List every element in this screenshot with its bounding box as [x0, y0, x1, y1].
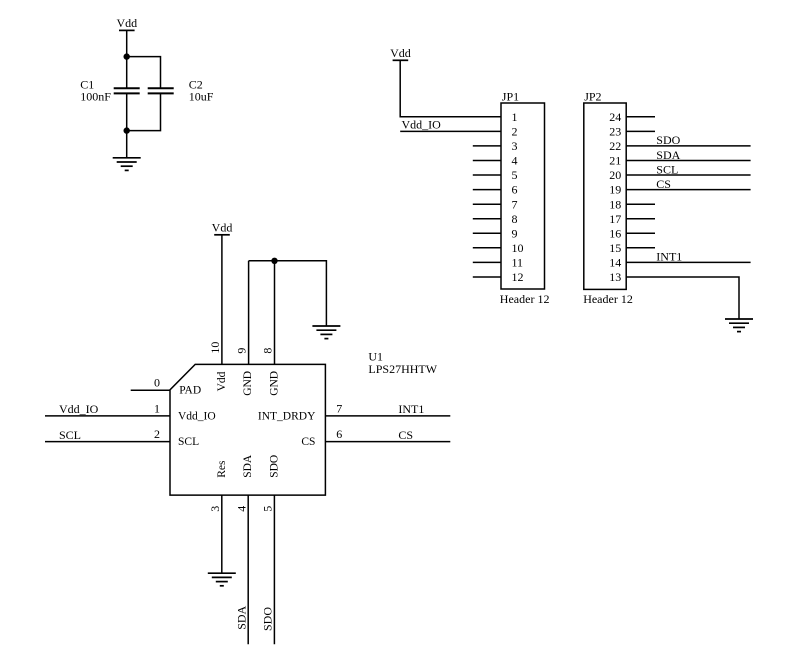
- svg-text:11: 11: [512, 256, 524, 270]
- svg-text:1: 1: [154, 401, 160, 415]
- svg-text:SDO: SDO: [656, 133, 680, 147]
- JP1 pin 10 stub: [473, 247, 501, 249]
- svg-text:12: 12: [512, 270, 524, 284]
- svg-text:Vdd_IO: Vdd_IO: [178, 410, 216, 422]
- svg-text:SDO: SDO: [268, 455, 280, 478]
- wire U1 pin 5 SDO: [273, 495, 275, 644]
- svg-text:23: 23: [609, 125, 621, 139]
- wire junction to ground: [126, 131, 128, 158]
- U1 pin 0 wire (PAD): [131, 389, 170, 391]
- svg-text:15: 15: [609, 241, 621, 255]
- svg-text:24: 24: [609, 110, 621, 124]
- JP1 pin 12 stub: [473, 276, 501, 278]
- wire C2 bottom to junction: [127, 94, 161, 131]
- JP2 pin 23 stub: [626, 130, 655, 132]
- wire JP2 pin 20 SCL: [626, 174, 750, 176]
- JP1 pin 5 stub: [473, 174, 501, 176]
- svg-text:7: 7: [336, 401, 342, 415]
- svg-text:3: 3: [208, 506, 222, 512]
- svg-text:GND: GND: [242, 371, 254, 396]
- svg-text:Vdd_IO: Vdd_IO: [59, 402, 99, 416]
- wire Vdd rail down to C1: [126, 30, 128, 87]
- svg-text:Vdd: Vdd: [212, 221, 233, 235]
- JP1 pin 7 stub: [473, 203, 501, 205]
- wire JP2 pin 22 SDO: [626, 145, 750, 147]
- ground (JP2 pin 13): [725, 319, 753, 332]
- svg-text:SCL: SCL: [59, 428, 81, 442]
- svg-text:SDA: SDA: [234, 605, 248, 629]
- svg-text:PAD: PAD: [179, 385, 201, 397]
- wire U1 pin 6 CS: [325, 441, 450, 443]
- node junction bottom C1/C2: [124, 127, 130, 133]
- svg-text:5: 5: [512, 168, 518, 182]
- node junction top C1/C2: [124, 53, 130, 59]
- svg-text:INT1: INT1: [398, 402, 424, 416]
- JP1 pin 3 stub: [473, 145, 501, 147]
- svg-text:CS: CS: [301, 436, 315, 448]
- wire JP2 pin 21 SDA: [626, 160, 750, 162]
- svg-text:9: 9: [235, 348, 249, 354]
- svg-text:9: 9: [512, 226, 518, 240]
- svg-text:Vdd_IO: Vdd_IO: [402, 118, 442, 132]
- svg-text:SDO: SDO: [261, 607, 275, 631]
- svg-text:2: 2: [154, 427, 160, 441]
- svg-text:4: 4: [234, 506, 248, 512]
- svg-text:8: 8: [512, 212, 518, 226]
- wire U1 pin 1: [45, 415, 170, 417]
- wire JP2 pin 19 CS: [626, 189, 750, 191]
- svg-text:10: 10: [208, 342, 222, 354]
- wire junction to C2 branch (top): [127, 57, 161, 88]
- JP2 pin 15 stub: [626, 247, 655, 249]
- wire U1 pin 9 GND: [248, 261, 250, 365]
- svg-text:3: 3: [512, 139, 518, 153]
- wire GND rail to ground: [249, 261, 327, 326]
- IC U1 LPS27HHTW body: [170, 350, 438, 496]
- capacitor C1 100nF: [80, 77, 140, 103]
- svg-text:2: 2: [512, 125, 518, 139]
- JP1 pin 11 stub: [473, 261, 501, 263]
- JP2 pin 24 stub: [626, 116, 655, 118]
- svg-text:CS: CS: [656, 177, 671, 191]
- connector JP1 (Header 12): [500, 89, 550, 306]
- svg-text:5: 5: [261, 506, 275, 512]
- wire net Vdd_IO to JP1 pin 2: [400, 130, 501, 132]
- svg-text:18: 18: [609, 197, 621, 211]
- svg-text:Vdd: Vdd: [216, 371, 228, 391]
- svg-text:14: 14: [609, 256, 621, 270]
- wire U1 pin 3 to ground: [221, 495, 223, 573]
- svg-text:17: 17: [609, 212, 621, 226]
- connector JP2 (Header 12): [583, 89, 633, 306]
- svg-text:21: 21: [609, 154, 621, 168]
- wire U1 pin 2: [45, 441, 170, 443]
- node junction pin8/GND rail: [271, 258, 277, 264]
- svg-text:10: 10: [512, 241, 524, 255]
- svg-text:LPS27HHTW: LPS27HHTW: [368, 362, 437, 376]
- svg-text:Res: Res: [216, 460, 228, 478]
- svg-text:GND: GND: [268, 371, 280, 396]
- wire U1 pin 4 SDA: [247, 495, 249, 644]
- JP1 pin 4 stub: [473, 160, 501, 162]
- svg-text:22: 22: [609, 139, 621, 153]
- JP2 pin 17 stub: [626, 218, 655, 220]
- svg-text:13: 13: [609, 270, 621, 284]
- ground (decoupling rail): [113, 158, 141, 171]
- svg-text:4: 4: [512, 154, 518, 168]
- svg-text:SCL: SCL: [178, 436, 199, 448]
- wire U1 pin 8 GND: [274, 261, 276, 365]
- wire C1 bottom to junction: [126, 94, 128, 131]
- svg-text:SDA: SDA: [656, 148, 680, 162]
- svg-text:Vdd: Vdd: [116, 16, 137, 30]
- svg-text:Header 12: Header 12: [500, 292, 550, 306]
- svg-text:1: 1: [512, 110, 518, 124]
- svg-text:20: 20: [609, 168, 621, 182]
- capacitor C2 10uF: [148, 77, 214, 103]
- wire U1 pin 10 to Vdd: [221, 235, 223, 365]
- svg-text:Header 12: Header 12: [583, 292, 633, 306]
- svg-text:6: 6: [336, 427, 342, 441]
- wire JP2 pin 14 INT1: [626, 261, 750, 263]
- ground (U1 GND rail): [312, 326, 340, 339]
- svg-text:JP1: JP1: [502, 89, 519, 103]
- svg-text:10uF: 10uF: [189, 90, 214, 104]
- svg-text:19: 19: [609, 183, 621, 197]
- svg-text:8: 8: [261, 348, 275, 354]
- svg-text:16: 16: [609, 226, 621, 240]
- JP2 pin 16 stub: [626, 232, 655, 234]
- wire JP2 pin 13 to ground: [626, 277, 739, 319]
- svg-text:100nF: 100nF: [80, 90, 111, 104]
- power symbol Vdd (decoupling rail): [116, 16, 137, 30]
- svg-text:Vdd: Vdd: [390, 46, 411, 60]
- svg-text:INT_DRDY: INT_DRDY: [258, 410, 316, 422]
- svg-text:7: 7: [512, 197, 518, 211]
- ground (U1 pin 3 Res): [208, 573, 236, 586]
- power symbol Vdd (U1 pin 10): [212, 221, 233, 235]
- JP2 pin 18 stub: [626, 203, 655, 205]
- svg-text:JP2: JP2: [584, 89, 601, 103]
- svg-text:0: 0: [154, 376, 160, 390]
- svg-text:CS: CS: [398, 428, 413, 442]
- svg-text:SDA: SDA: [242, 454, 254, 478]
- wire Vdd down to JP1 pin 1: [400, 60, 501, 117]
- svg-text:INT1: INT1: [656, 250, 682, 264]
- wire U1 pin 7 INT1: [325, 415, 450, 417]
- JP1 pin 6 stub: [473, 189, 501, 191]
- power symbol Vdd (JP1): [390, 46, 411, 60]
- JP1 pin 8 stub: [473, 218, 501, 220]
- svg-text:6: 6: [512, 183, 518, 197]
- JP1 pin 9 stub: [473, 232, 501, 234]
